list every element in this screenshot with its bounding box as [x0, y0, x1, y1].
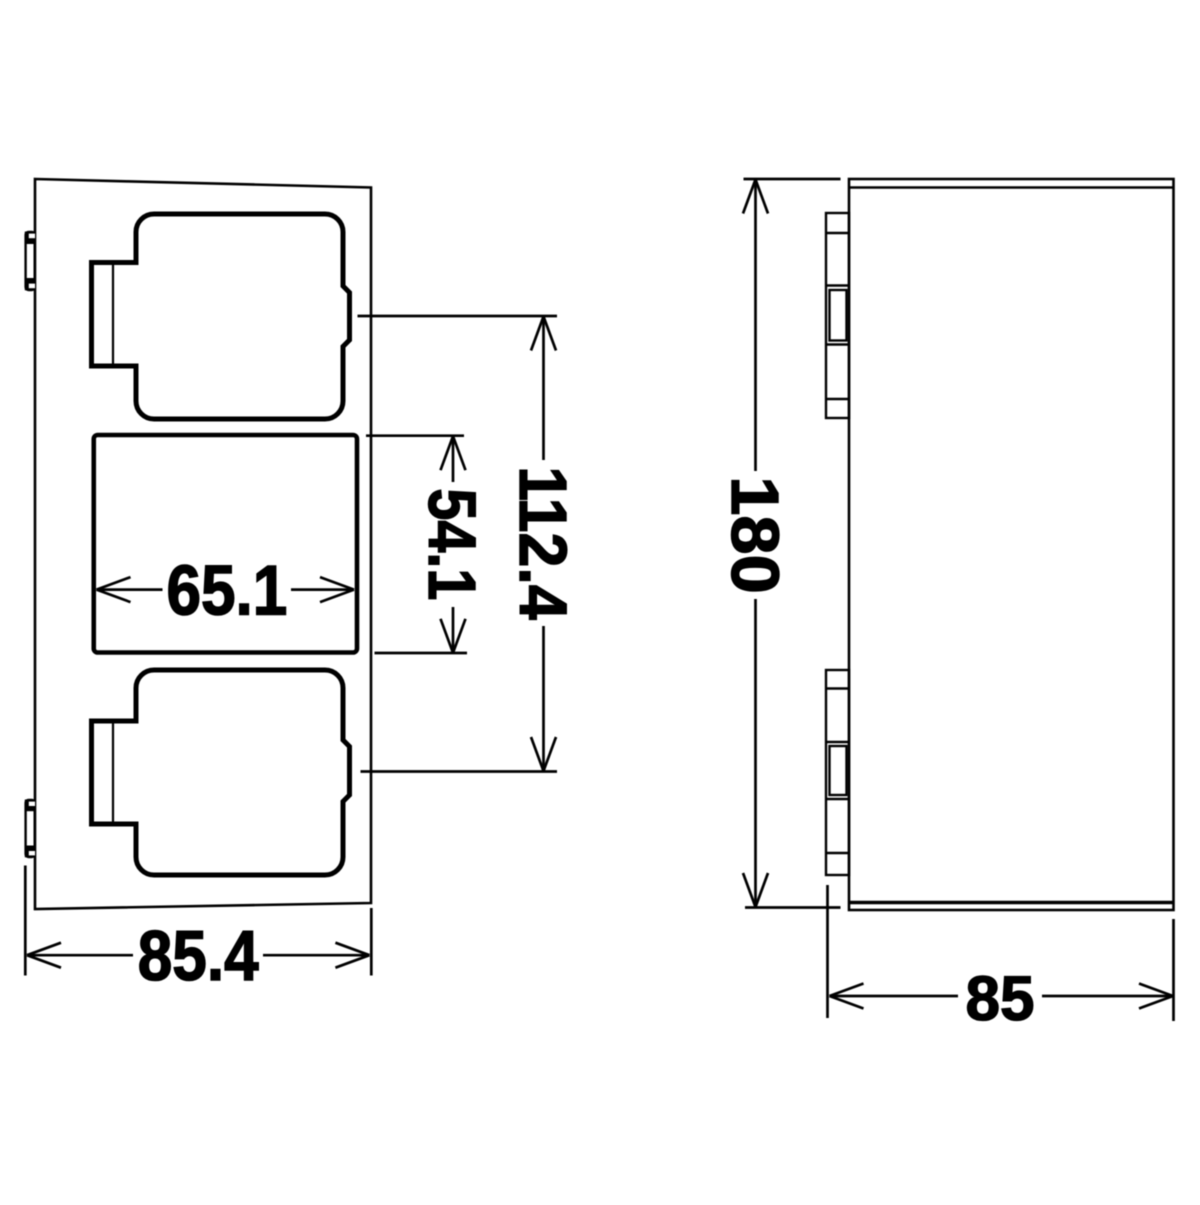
- dim text 85.4: [138, 917, 259, 995]
- top cutout: [92, 214, 350, 419]
- svg-text:112.4: 112.4: [506, 466, 581, 620]
- side view top clip: [826, 213, 849, 418]
- svg-text:180: 180: [718, 476, 793, 593]
- dim 65.1: [97, 577, 355, 602]
- dim text 65.1: [166, 552, 287, 630]
- dim 54.1: [441, 436, 466, 653]
- dim 180: [743, 180, 768, 908]
- dim 85.4: [27, 943, 369, 968]
- side view bottom clip: [826, 670, 849, 875]
- svg-text:85: 85: [965, 965, 1034, 1034]
- side view bottom edge band: [849, 901, 1174, 904]
- dim text 180 (rotated): [718, 476, 793, 593]
- svg-text:54.1: 54.1: [414, 488, 488, 600]
- svg-text:65.1: 65.1: [166, 552, 287, 630]
- dim 85.4 extension lines: [25, 866, 371, 976]
- front view bottom-left clip: [25, 800, 35, 858]
- dim 54.1 extension lines: [366, 436, 467, 653]
- front view plate outline: [35, 179, 371, 909]
- middle cutout: [94, 435, 357, 653]
- front view top-left clip: [25, 232, 35, 291]
- dim 85: [830, 984, 1174, 1009]
- bottom cutout: [92, 670, 350, 875]
- dim 180 extension lines: [744, 179, 841, 908]
- dim text 112.4 (rotated): [506, 466, 581, 620]
- side view top edge band: [849, 186, 1174, 188]
- svg-text:85.4: 85.4: [138, 917, 259, 995]
- side view body outline: [849, 179, 1174, 910]
- dim 85 extension lines: [828, 885, 1174, 1021]
- dim 112.4 extension lines: [358, 316, 558, 772]
- dim 112.4: [531, 317, 556, 772]
- dim text 85: [965, 965, 1034, 1034]
- dim text 54.1 (rotated): [414, 488, 488, 600]
